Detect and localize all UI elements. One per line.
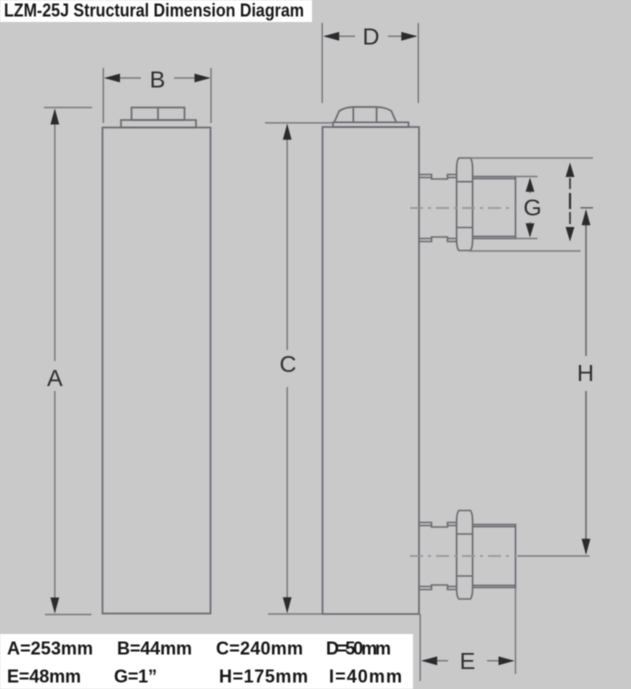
left view group <box>103 108 211 614</box>
title band <box>0 0 312 22</box>
svg-text:C=240mm: C=240mm <box>216 639 303 659</box>
bottom fitting <box>419 511 516 600</box>
D arrow right <box>401 32 417 41</box>
C arrow down <box>283 597 292 613</box>
bottom fitting stub lower inner line <box>419 586 457 588</box>
top fitting stub lower inner line <box>419 238 457 240</box>
top fitting stub upper outer line a <box>419 175 457 180</box>
svg-text:A: A <box>47 365 63 391</box>
svg-text:B: B <box>150 67 166 93</box>
bottom fitting centerline <box>410 555 517 557</box>
bottom fitting stub lower outer line <box>419 585 457 590</box>
dimension C <box>265 123 333 614</box>
I top extension line <box>470 157 593 159</box>
B extension line left <box>102 68 104 123</box>
B dim line right <box>174 77 209 79</box>
A dim line lower <box>54 391 56 612</box>
top fitting male end outline <box>473 177 516 239</box>
cap top left view <box>132 108 185 121</box>
top fitting <box>419 158 516 251</box>
bottom fitting male end inner line top <box>473 526 516 528</box>
bottom fitting hex nut <box>457 511 473 600</box>
svg-text:LZM-25J Structural Dimension D: LZM-25J Structural Dimension Diagram <box>4 1 304 21</box>
B arrow right <box>195 74 211 83</box>
cap plate right view <box>333 122 409 127</box>
bottom fitting male end inner line bottom <box>473 584 516 586</box>
B extension line right <box>210 68 212 123</box>
H dim line upper <box>585 211 587 356</box>
H top tick <box>581 207 594 209</box>
top fitting stub upper inner line <box>419 177 457 179</box>
bottom fitting nut facet line upper <box>457 533 473 535</box>
svg-text:G: G <box>523 195 541 221</box>
dimension A <box>44 108 92 615</box>
hex nut top of body <box>334 107 396 122</box>
G extension line bottom <box>516 238 538 240</box>
E arrow right <box>499 656 515 665</box>
dimension G <box>516 177 538 239</box>
C dim line upper <box>286 125 288 350</box>
D extension line left <box>321 23 323 103</box>
G extension line top <box>516 176 538 178</box>
svg-text:G=1”: G=1” <box>114 667 157 687</box>
bottom fitting stub upper outer line <box>419 523 457 528</box>
E extension line right <box>515 588 517 674</box>
A bottom tick <box>45 614 92 616</box>
svg-text:D: D <box>363 24 380 50</box>
I bottom extension line <box>469 250 581 252</box>
svg-text:I=40mm: I=40mm <box>329 667 402 687</box>
svg-text:E: E <box>460 648 476 674</box>
dimension D <box>322 23 418 103</box>
D dim line right <box>388 35 416 37</box>
E arrow left <box>421 656 437 665</box>
top fitting centerline <box>410 207 517 209</box>
hex nut facet line right <box>376 107 378 122</box>
dimension E <box>420 588 515 681</box>
D dim line left <box>325 35 355 37</box>
D extension line right <box>417 23 419 103</box>
C dim line lower <box>286 387 288 612</box>
G arrow up <box>526 178 535 192</box>
I arrow up <box>566 163 575 178</box>
E dim line left <box>423 660 448 662</box>
bottom fitting male end outline <box>473 525 516 588</box>
top fitting nut facet line lower <box>457 227 473 229</box>
C arrow up <box>283 124 292 140</box>
hex nut facet line left <box>352 107 354 122</box>
dimension values row 2 <box>7 667 402 687</box>
dimension I dashed line <box>569 178 571 228</box>
E dim line right <box>487 660 513 662</box>
B arrow left <box>104 74 120 83</box>
bottom fitting nut facet line lower <box>457 575 473 577</box>
top fitting male end inner line top <box>473 178 516 180</box>
svg-text:H=175mm: H=175mm <box>219 667 308 687</box>
body left view <box>103 128 211 614</box>
top fitting nut facet line upper <box>457 181 473 183</box>
A top tick <box>44 107 92 109</box>
C top extension line <box>265 122 333 124</box>
C bottom extension line <box>268 613 322 615</box>
cap plate left view <box>121 120 196 128</box>
svg-text:E=48mm: E=48mm <box>7 667 81 687</box>
bottom centerline solid extension <box>518 555 590 557</box>
body right view <box>323 127 420 614</box>
G arrow down <box>526 223 535 237</box>
dimension B <box>103 68 211 123</box>
top fitting male end inner line bottom <box>473 235 516 237</box>
G dim line lower <box>529 222 531 236</box>
G dim line upper <box>529 179 531 193</box>
dimension H <box>581 208 594 553</box>
E extension line left <box>419 614 421 681</box>
svg-text:I: I <box>567 188 574 214</box>
A arrow up <box>50 109 59 125</box>
svg-text:B=44mm: B=44mm <box>117 639 192 659</box>
top fitting stub lower outer line a <box>419 237 457 242</box>
top fitting hex nut <box>457 158 473 251</box>
dimension values row 1 <box>7 639 391 659</box>
svg-text:D=50mm: D=50mm <box>326 639 391 659</box>
I arrow down <box>566 227 575 242</box>
svg-text:A=253mm: A=253mm <box>7 639 93 659</box>
bottom fitting stub upper inner line <box>419 525 457 527</box>
B dim line left <box>106 77 141 79</box>
H arrow up <box>582 209 591 225</box>
cap top divider <box>157 108 159 121</box>
D arrow left <box>323 32 339 41</box>
A dim line upper <box>54 110 56 361</box>
bottom text band <box>0 634 413 689</box>
H dim line lower <box>585 391 587 553</box>
svg-text:C: C <box>280 351 297 377</box>
A arrow down <box>50 598 59 614</box>
svg-text:H: H <box>577 360 594 386</box>
H arrow down <box>582 539 591 555</box>
right view group <box>323 107 420 614</box>
